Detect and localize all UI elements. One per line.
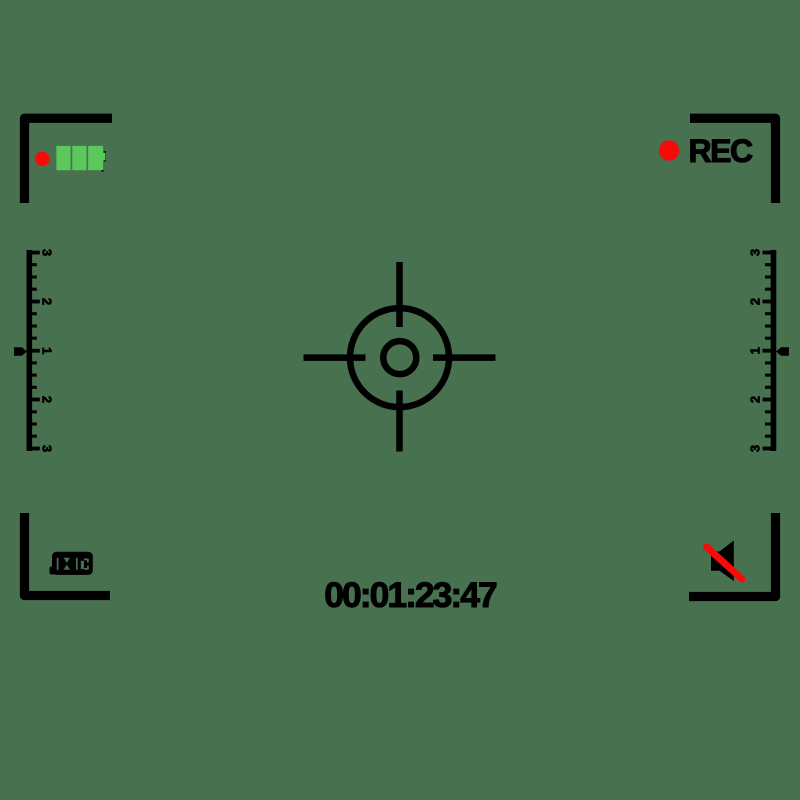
svg-text:REC: REC: [689, 133, 753, 169]
svg-text:00:01:23:47: 00:01:23:47: [324, 575, 497, 615]
svg-text:2: 2: [748, 396, 763, 403]
svg-text:2: 2: [748, 298, 763, 305]
svg-text:3: 3: [40, 249, 55, 256]
svg-text:2: 2: [40, 396, 55, 403]
svg-text:1: 1: [40, 347, 55, 354]
svg-text:3: 3: [748, 249, 763, 256]
svg-text:3: 3: [748, 445, 763, 452]
svg-text:1: 1: [748, 347, 763, 354]
svg-text:3: 3: [40, 445, 55, 452]
svg-text:2: 2: [40, 298, 55, 305]
